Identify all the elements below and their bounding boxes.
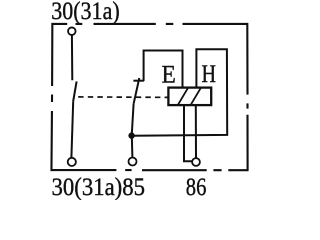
svg-text:30(31a): 30(31a) (51, 0, 120, 25)
relay case outline left edge (dash-dot) (50, 23, 53, 171)
wire from terminal 30(31a) top to fixed contact (71, 35, 73, 80)
terminal 86 circle (192, 158, 200, 166)
relay case outline top edge (dash-dot) (52, 23, 247, 25)
magnet core (hatched box) (168, 88, 211, 106)
junction node dot (128, 132, 134, 138)
switch blade middle (armature contact) (134, 78, 140, 104)
svg-text:E: E (162, 62, 176, 89)
svg-text:30(31a)85: 30(31a)85 (52, 174, 146, 200)
relay case outline right edge (dash-dot) (246, 23, 248, 171)
mechanical link dashed line between blades and core (78, 96, 168, 99)
terminal 30(31a) top circle (68, 27, 76, 35)
svg-text:H: H (202, 61, 217, 88)
terminal 85 circle (129, 158, 137, 166)
wire from junction to terminal 85 (131, 136, 134, 158)
relay case outline bottom edge (dash-dot) (51, 169, 247, 171)
wire from left blade to terminal 30(31a) bottom (71, 101, 73, 158)
core hatch stroke 1 (178, 88, 188, 106)
switch blade left (main contact) (73, 81, 76, 101)
armature wire down to junction (132, 104, 134, 136)
terminal 30(31a) bottom circle (68, 158, 76, 166)
wire winding E to terminal 86 (184, 105, 192, 161)
fixed contact plate of middle switch (133, 80, 144, 82)
core hatch stroke 2 (191, 88, 201, 106)
svg-text:86: 86 (186, 174, 207, 200)
wire winding H to terminal 86 (195, 105, 197, 158)
winding H frame and wire to junction (132, 49, 227, 136)
winding E frame (with fixed contact leg) (144, 51, 183, 88)
